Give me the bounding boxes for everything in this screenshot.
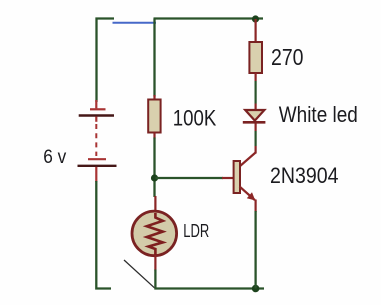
- battery B1 6v: [78, 100, 117, 182]
- svg-text:2N3904: 2N3904: [270, 163, 339, 188]
- pin: base lead: [222, 177, 234, 179]
- svg-text:6 v: 6 v: [43, 146, 66, 168]
- pin: 270 resistor top lead: [255, 19, 257, 43]
- diode D1 White led: [243, 110, 266, 122]
- LDR: [132, 196, 177, 271]
- wire: battery negative to bottom stub: [96, 181, 111, 289]
- wire: blue jumper: [113, 22, 157, 24]
- wire: LED to collector: [255, 124, 257, 154]
- wire: resistor to LDR: [153, 138, 155, 198]
- junction: base node: [151, 174, 158, 181]
- svg-text:White led: White led: [279, 102, 358, 127]
- wire: 100K branch from top rail: [153, 19, 155, 97]
- svg-text:LDR: LDR: [183, 221, 209, 241]
- junction: top right node: [252, 15, 259, 22]
- annotation: pointer line to LDR: [124, 260, 154, 288]
- junction: bottom right node: [252, 285, 260, 293]
- resistor R2 270: [249, 42, 262, 73]
- wire: battery branch top elbow: [97, 19, 115, 103]
- svg-text:270: 270: [271, 44, 304, 70]
- resistor R1 100K: [148, 95, 160, 139]
- wire: emitter to bottom rail: [255, 200, 257, 289]
- svg-text:100K: 100K: [173, 105, 217, 130]
- wire: LDR to bottom rail: [154, 270, 156, 289]
- wire: top rail (V+): [154, 17, 264, 19]
- wire: resistor to LED: [255, 73, 257, 110]
- wire: base wire: [156, 177, 224, 179]
- wire: bottom rail (ground): [154, 287, 264, 289]
- transistor Q1 2N3904: [234, 153, 256, 201]
